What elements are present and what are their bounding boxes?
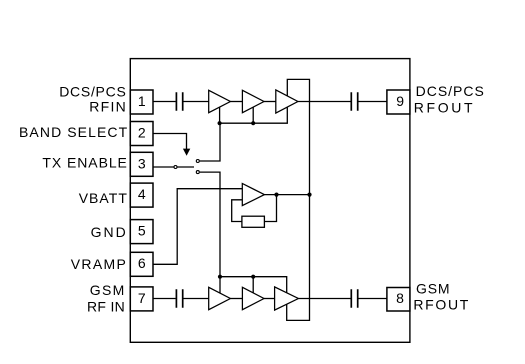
svg-text:5: 5 [138,223,146,239]
svg-text:RFOUT: RFOUT [414,100,473,116]
svg-text:GND: GND [91,224,126,240]
svg-text:VRAMP: VRAMP [71,256,126,272]
svg-text:BAND SELECT: BAND SELECT [19,124,128,140]
svg-text:7: 7 [138,290,146,306]
svg-text:GSM: GSM [416,281,450,297]
svg-text:VBATT: VBATT [79,190,128,206]
svg-text:8: 8 [396,290,404,306]
svg-text:6: 6 [138,255,146,271]
svg-text:3: 3 [138,155,146,171]
svg-text:9: 9 [396,93,404,109]
svg-text:1: 1 [138,93,146,109]
svg-text:GSM: GSM [90,282,125,298]
svg-text:RF IN: RF IN [87,299,125,315]
svg-text:4: 4 [138,186,146,202]
svg-text:2: 2 [138,124,146,140]
svg-text:TX ENABLE: TX ENABLE [42,155,126,171]
svg-text:RFOUT: RFOUT [413,296,468,312]
svg-text:DCS/PCS: DCS/PCS [416,83,484,99]
svg-text:DCS/PCS: DCS/PCS [59,83,126,99]
svg-text:RFIN: RFIN [89,99,126,115]
